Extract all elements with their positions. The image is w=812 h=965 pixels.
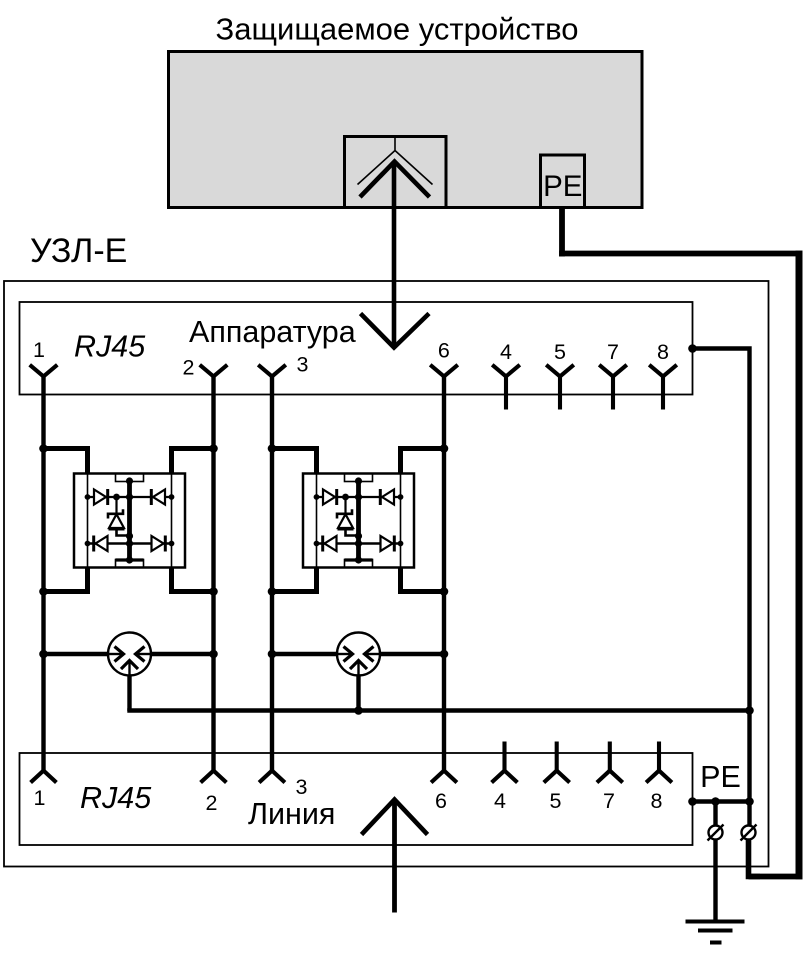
TVS diode of module VD2 (pair 3-6) top rail node: [342, 494, 349, 501]
wire: arrester common bus to earth riser: [127, 708, 749, 712]
module VD1 (pair 1-2) rail end node (87.5,497): [85, 494, 91, 500]
bottom connector pin 2 contact symbol: [201, 771, 227, 783]
module VD1 (pair 1-2) top pin notch: [116, 474, 144, 482]
socket box of protected device: [345, 137, 447, 208]
junction node bus / earth riser: [745, 706, 754, 715]
arrester FV1 left electrode: [108, 653, 122, 655]
junction node pin 2 wire / lower row y=591.5: [209, 587, 218, 596]
wire: arrester FV1 bottom lead: [127, 675, 131, 712]
wire: pin left to arrester FV2: [272, 652, 338, 656]
bracket wire VD2 (pair 3-6) bottom-right: [401, 567, 445, 592]
junction node pin 6 wire / arrester row row y=654.0: [440, 650, 449, 659]
wire: line cable into Линия connector: [392, 800, 397, 913]
bracket wire VD2 (pair 3-6) bottom-left: [272, 567, 317, 592]
TVS diode of module VD1 (pair 1-2) cathode lead: [115, 497, 117, 514]
wire: disconnector left to earth: [713, 839, 717, 922]
bracket wire VD1 (pair 1-2) top-right: [172, 449, 214, 475]
arrester FV1 right electrode: [138, 653, 152, 655]
wire: pair conductor pin 3 (top to bottom connector): [270, 375, 274, 773]
bracket wire VD1 (pair 1-2) bottom-right: [172, 567, 214, 592]
svg-text:Аппаратура: Аппаратура: [189, 315, 356, 349]
module VD2 (pair 3-6) rail end node (316.5,543.5): [314, 541, 320, 547]
module VD1 (pair 1-2) trunk node y=497: [126, 493, 133, 500]
module VD2 (pair 3-6) center trunk: [356, 481, 361, 561]
PE terminal box of protected device: [541, 155, 585, 208]
TVS diode of module VD2 (pair 3-6) anode bar: [338, 527, 354, 530]
wire: pin left to arrester FV1: [44, 652, 110, 656]
bottom connector pin 1 contact symbol: [31, 771, 57, 783]
svg-text:Линия: Линия: [248, 797, 335, 831]
top connector pin 2 contact symbol: [200, 365, 228, 377]
arrowhead into Аппаратура connector: [361, 314, 430, 348]
arrester FV1 bottom electrode: [121, 661, 138, 670]
module VD1 (pair 1-2) center trunk: [127, 481, 132, 561]
module VD2 (pair 3-6) trunk node y=481: [355, 477, 362, 484]
wire: PE row to disconnector left: [713, 802, 717, 827]
socket arrow chevron (device side): [360, 162, 430, 198]
junction node pin 2 wire / upper row y=448.5: [209, 444, 218, 453]
svg-text:7: 7: [603, 789, 615, 813]
svg-text:RJ45: RJ45: [74, 330, 146, 364]
module VD1 (pair 1-2) bottom pin notch: [116, 560, 144, 568]
svg-text:RJ45: RJ45: [80, 781, 152, 815]
top connector pin 6 contact symbol: [430, 365, 458, 377]
junction node pin 2 wire / arrester row row y=654.0: [209, 650, 218, 659]
svg-text:Защищаемое устройство: Защищаемое устройство: [216, 12, 579, 47]
TVS diode of module VD1 (pair 1-2) triangle: [109, 514, 124, 528]
top connector pin 7 contact symbol: [599, 365, 627, 377]
wire: arrester FV2 to pin right: [379, 652, 444, 656]
module VD1 (pair 1-2) trunk node y=536: [126, 532, 133, 539]
TVS diode of module VD2 (pair 3-6) zener bar: [337, 509, 352, 518]
protected device box: [169, 52, 643, 208]
TVS diode of module VD1 (pair 1-2) zener bar: [108, 509, 123, 518]
svg-text:1: 1: [34, 786, 46, 810]
module VD1 (pair 1-2) bottom notch bar: [116, 558, 144, 561]
module VD2 (pair 3-6) trunk node y=560: [355, 556, 362, 563]
bracket wire VD2 (pair 3-6) top-right: [401, 449, 445, 475]
svg-text:6: 6: [435, 789, 447, 813]
junction node pin 1 wire / upper row y=448.5: [39, 444, 48, 453]
diode top-left of module VD1 (pair 1-2): [94, 490, 106, 505]
УЗЛ-Е enclosure box: [4, 281, 769, 867]
svg-text:PE: PE: [543, 170, 582, 203]
svg-text:5: 5: [550, 789, 562, 813]
bottom connector pin 6 contact symbol: [431, 771, 457, 783]
module VD1 (pair 1-2) trunk node y=560: [126, 556, 133, 563]
TVS diode of module VD1 (pair 1-2) top rail node: [113, 494, 120, 501]
diode bot-left of module VD1 (pair 1-2): [96, 536, 108, 551]
module VD2 (pair 3-6) bottom rail: [317, 542, 401, 545]
wire: top connector shield to earth riser: [693, 349, 750, 803]
arrester FV2 bottom electrode: [350, 661, 367, 670]
svg-text:8: 8: [651, 789, 663, 813]
svg-text:УЗЛ-Е: УЗЛ-Е: [30, 232, 127, 270]
bracket wire VD1 (pair 1-2) top-left: [44, 449, 88, 475]
top connector pin 5 contact symbol: [546, 365, 574, 377]
junction node PE row left: [688, 797, 697, 806]
TVS diode of module VD2 (pair 3-6) cathode lead: [344, 497, 346, 514]
wire: PE right vertical riser: [796, 251, 803, 880]
bottom connector pin 7 contact symbol: [597, 771, 623, 783]
bottom connector pin 4 contact symbol: [492, 771, 518, 783]
junction node top connector shield: [688, 344, 697, 353]
module VD1 (pair 1-2) rail end node (171.5,497): [169, 494, 175, 500]
diode-array module VD1 (pair 1-2) outer box: [74, 474, 185, 568]
svg-text:7: 7: [607, 340, 619, 364]
arrowhead into Линия connector: [362, 800, 428, 835]
socket fork thin lines: [358, 137, 433, 185]
bottom RJ45 connector box (Линия): [20, 753, 693, 845]
bottom connector pin 8 contact symbol: [646, 771, 672, 783]
module VD2 (pair 3-6) bottom pin notch: [345, 560, 373, 568]
module VD2 (pair 3-6) bottom notch bar: [345, 558, 373, 561]
diode-array module VD2 (pair 3-6) outer box: [303, 474, 414, 568]
top connector pin 4 contact symbol: [492, 365, 520, 377]
diode-array module VD2 (pair 3-6) inner box: [317, 474, 401, 568]
wire: disconnector right to PE run: [749, 839, 761, 877]
gas discharge arrester FV1 envelope: [108, 633, 151, 676]
wire: pair conductor pin 6 (top to bottom connector): [442, 375, 446, 773]
wire: earth riser to disconnector right: [747, 802, 751, 827]
module VD1 (pair 1-2) rail end node (171.5,543.5): [169, 541, 175, 547]
module VD1 (pair 1-2) trunk node y=481: [126, 477, 133, 484]
wire: PE bottom horizontal to disconnector: [749, 874, 803, 880]
module VD2 (pair 3-6) rail end node (400.5,543.5): [398, 541, 404, 547]
junction node PE row right: [745, 797, 754, 806]
wire: bottom connector PE row: [693, 799, 750, 803]
top RJ45 connector box (Аппаратура): [20, 302, 693, 395]
junction node pin 6 wire / upper row y=448.5: [440, 444, 449, 453]
svg-text:3: 3: [297, 353, 309, 377]
svg-text:8: 8: [657, 340, 669, 364]
TVS diode of module VD2 (pair 3-6) triangle: [338, 514, 353, 528]
module VD2 (pair 3-6) rail end node (400.5,497): [398, 494, 404, 500]
svg-text:4: 4: [500, 340, 512, 364]
diode bot-right of module VD2 (pair 3-6): [381, 536, 393, 551]
svg-text:5: 5: [554, 340, 566, 364]
junction node arrester FV2 on bus: [354, 706, 363, 715]
diode top-right of module VD2 (pair 3-6): [382, 490, 394, 505]
top connector pin 1 contact symbol: [30, 365, 58, 377]
arrester FV2 left electrode: [337, 653, 351, 655]
disconnector spark gap right: [742, 826, 756, 840]
module VD2 (pair 3-6) top pin notch: [345, 474, 373, 482]
junction node pin 1 wire / arrester row row y=654.0: [39, 650, 48, 659]
svg-text:2: 2: [206, 791, 218, 815]
junction node pin 6 wire / lower row y=591.5: [440, 587, 449, 596]
module VD2 (pair 3-6) trunk node y=497: [355, 493, 362, 500]
module VD2 (pair 3-6) trunk node y=543.5: [355, 540, 362, 547]
bracket wire VD1 (pair 1-2) bottom-left: [44, 567, 88, 592]
top connector pin 3 contact symbol: [258, 365, 286, 377]
top connector pin 8 contact symbol: [649, 365, 677, 377]
svg-text:PE: PE: [700, 760, 741, 794]
wire: PE from device down: [559, 208, 565, 257]
TVS diode of module VD2 (pair 3-6) anode lead to trunk: [346, 529, 359, 536]
gas discharge arrester FV2 envelope: [337, 633, 380, 676]
bottom connector pin 3 contact symbol: [259, 771, 285, 783]
ground symbol: [686, 920, 745, 924]
diode bot-right of module VD1 (pair 1-2): [152, 536, 164, 551]
disconnector spark gap left: [709, 826, 723, 840]
junction node pin 3 wire / upper row y=448.5: [268, 444, 277, 453]
diode top-left of module VD2 (pair 3-6): [323, 490, 335, 505]
junction node PE row middle: [711, 797, 720, 806]
diode-array module VD1 (pair 1-2) inner box: [88, 474, 172, 568]
bracket wire VD2 (pair 3-6) top-left: [272, 449, 317, 475]
wire: device socket to Аппаратура connector: [392, 162, 397, 346]
svg-text:3: 3: [296, 775, 308, 799]
diode top-right of module VD1 (pair 1-2): [153, 490, 165, 505]
TVS diode of module VD1 (pair 1-2) anode lead to trunk: [117, 529, 130, 536]
module VD2 (pair 3-6) trunk node y=536: [355, 532, 362, 539]
module VD1 (pair 1-2) bottom rail: [88, 542, 172, 545]
svg-text:4: 4: [494, 789, 506, 813]
module VD2 (pair 3-6) rail end node (316.5,497): [314, 494, 320, 500]
wire: arrester FV2 bottom lead: [356, 675, 360, 712]
module VD1 (pair 1-2) trunk node y=543.5: [126, 540, 133, 547]
arrester FV2 right electrode: [367, 653, 381, 655]
TVS diode of module VD1 (pair 1-2) anode bar: [109, 527, 125, 530]
svg-text:1: 1: [33, 338, 45, 362]
module VD1 (pair 1-2) top rail: [88, 496, 172, 498]
module VD2 (pair 3-6) top rail: [317, 496, 401, 498]
diode bot-left of module VD2 (pair 3-6): [325, 536, 337, 551]
junction node pin 3 wire / lower row y=591.5: [268, 587, 277, 596]
wire: arrester FV1 to pin right: [150, 652, 214, 656]
wire: pair conductor pin 1 (top to bottom connector): [41, 375, 45, 773]
bottom connector pin 5 contact symbol: [544, 771, 570, 783]
svg-text:2: 2: [183, 356, 195, 380]
svg-text:6: 6: [438, 339, 450, 363]
junction node pin 3 wire / arrester row row y=654.0: [268, 650, 277, 659]
module VD1 (pair 1-2) rail end node (87.5,543.5): [85, 541, 91, 547]
junction node pin 1 wire / lower row y=591.5: [39, 587, 48, 596]
wire: pair conductor pin 2 (top to bottom connector): [211, 375, 215, 773]
wire: PE top horizontal run: [559, 251, 802, 257]
